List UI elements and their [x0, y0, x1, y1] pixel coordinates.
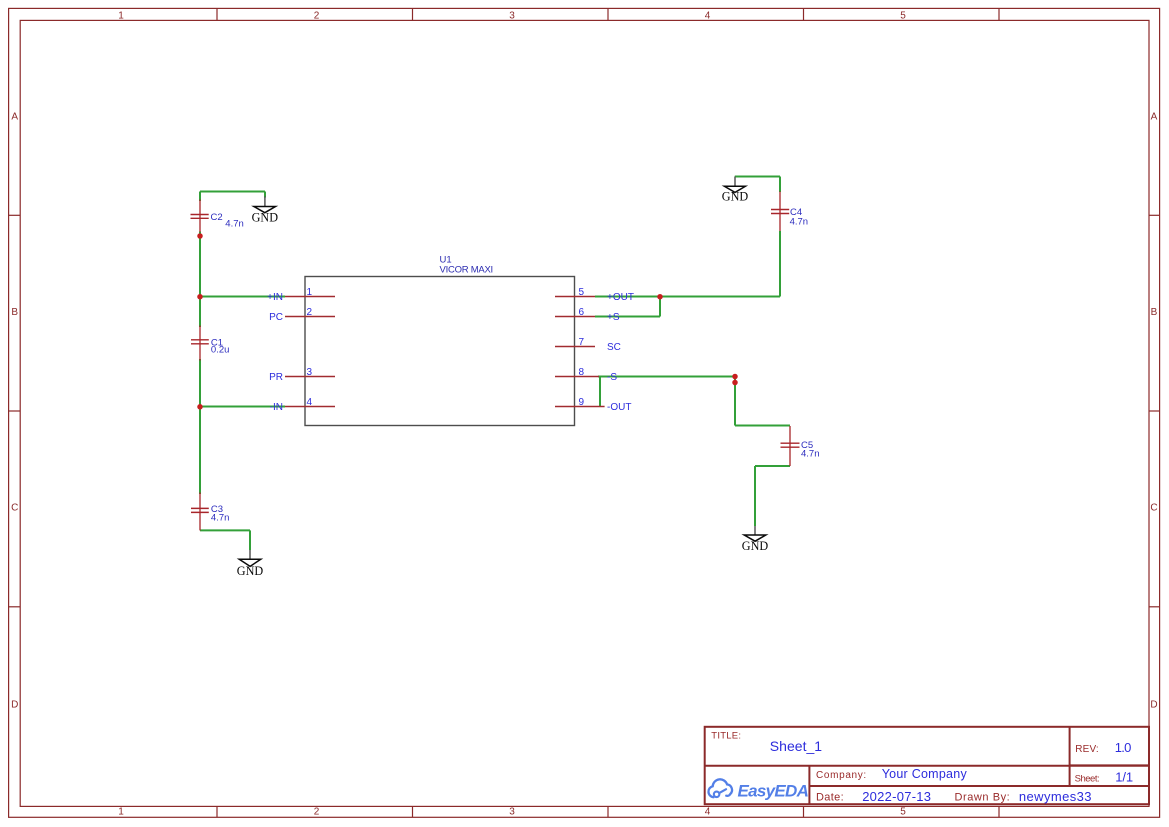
- svg-text:D: D: [1150, 700, 1157, 711]
- svg-text:GND: GND: [237, 564, 264, 578]
- ground GND bottom-right: [742, 526, 769, 553]
- svg-text:A: A: [11, 112, 18, 123]
- svg-text:D: D: [11, 700, 18, 711]
- svg-text:2: 2: [314, 806, 320, 817]
- svg-text:GND: GND: [252, 211, 279, 225]
- svg-text:4.7n: 4.7n: [225, 218, 244, 229]
- svg-text:4.7n: 4.7n: [801, 448, 820, 459]
- pin 4 -IN: [270, 397, 335, 413]
- svg-text:-OUT: -OUT: [607, 402, 631, 413]
- junction below C2 on +IN net: [197, 233, 203, 239]
- svg-text:1: 1: [118, 11, 124, 22]
- svg-text:B: B: [1151, 307, 1158, 318]
- svg-text:5: 5: [900, 806, 906, 817]
- junction at -IN pin wire: [197, 404, 203, 410]
- ground GND bottom-left: [237, 550, 264, 578]
- svg-text:5: 5: [579, 287, 585, 298]
- svg-text:4: 4: [307, 397, 313, 408]
- pin 3 PR: [269, 367, 335, 383]
- svg-text:Date:: Date:: [816, 792, 844, 804]
- junction -S net corner lower: [732, 380, 738, 386]
- junction -S net corner upper: [732, 374, 738, 380]
- svg-text:SC: SC: [607, 342, 621, 353]
- pin 8 -S: [555, 367, 617, 383]
- pin 9 -OUT: [555, 397, 631, 413]
- svg-text:4: 4: [705, 806, 711, 817]
- svg-text:0.2u: 0.2u: [211, 345, 230, 356]
- svg-text:6: 6: [579, 307, 585, 318]
- svg-text:C: C: [11, 503, 18, 514]
- title block: [705, 727, 1149, 804]
- junction at +IN pin wire: [197, 294, 203, 300]
- svg-text:TITLE:: TITLE:: [711, 730, 741, 741]
- svg-text:Your Company: Your Company: [882, 767, 968, 781]
- title block texts: [711, 730, 1133, 804]
- capacitor C2 4.7n: [191, 200, 244, 233]
- svg-text:8: 8: [579, 367, 585, 378]
- svg-text:+S: +S: [607, 312, 620, 323]
- svg-text:Sheet_1: Sheet_1: [770, 738, 823, 754]
- svg-text:GND: GND: [742, 539, 769, 553]
- svg-text:GND: GND: [722, 189, 749, 203]
- svg-text:PR: PR: [269, 372, 283, 383]
- svg-text:4: 4: [705, 11, 711, 22]
- svg-text:4.7n: 4.7n: [790, 216, 809, 227]
- pin 5 +OUT: [555, 287, 634, 303]
- IC U1 VICOR MAXI body: [305, 255, 575, 426]
- svg-text:PC: PC: [269, 312, 283, 323]
- pin 2 PC: [269, 307, 335, 323]
- junction +S to +OUT net: [657, 294, 663, 300]
- ground GND top-right: [722, 177, 749, 204]
- capacitor C5 4.7n: [781, 426, 820, 466]
- svg-text:9: 9: [579, 397, 585, 408]
- svg-text:1: 1: [307, 287, 313, 298]
- svg-text:A: A: [1151, 112, 1158, 123]
- EasyEDA logo: [708, 779, 808, 800]
- svg-text:Drawn By:: Drawn By:: [955, 791, 1010, 803]
- svg-text:1/1: 1/1: [1115, 770, 1133, 785]
- svg-text:REV:: REV:: [1075, 744, 1099, 755]
- svg-text:2: 2: [314, 11, 320, 22]
- svg-text:C2: C2: [211, 212, 223, 223]
- capacitor C3 4.7n: [191, 493, 229, 531]
- ground GND top-left: [252, 196, 279, 224]
- svg-text:C: C: [1150, 503, 1157, 514]
- svg-text:-S: -S: [607, 372, 617, 383]
- pin 7 SC: [555, 337, 621, 353]
- svg-text:2022-07-13: 2022-07-13: [862, 789, 931, 804]
- svg-text:+OUT: +OUT: [607, 292, 634, 303]
- svg-text:3: 3: [509, 11, 515, 22]
- svg-text:EasyEDA: EasyEDA: [738, 781, 809, 800]
- svg-text:1.0: 1.0: [1115, 740, 1132, 755]
- wire -IN net vertical left bus: [200, 192, 285, 551]
- wire -S net: [598, 377, 790, 527]
- svg-text:B: B: [11, 307, 18, 318]
- svg-text:3: 3: [509, 806, 515, 817]
- svg-text:Sheet:: Sheet:: [1075, 774, 1100, 785]
- svg-text:3: 3: [307, 367, 313, 378]
- svg-text:7: 7: [579, 337, 585, 348]
- svg-text:Company:: Company:: [816, 770, 866, 781]
- capacitor C1 0.2u: [191, 326, 229, 361]
- wire +OUT net: [595, 177, 780, 317]
- svg-text:4.7n: 4.7n: [211, 513, 230, 524]
- svg-text:-IN: -IN: [270, 402, 283, 413]
- svg-text:5: 5: [900, 11, 906, 22]
- pin 6 +S: [555, 307, 620, 323]
- svg-text:2: 2: [307, 307, 313, 318]
- capacitor C4 4.7n: [771, 192, 808, 232]
- pin 1 +IN: [267, 287, 335, 303]
- svg-text:1: 1: [118, 806, 124, 817]
- svg-text:VICOR MAXI: VICOR MAXI: [440, 264, 494, 275]
- svg-text:newymes33: newymes33: [1019, 789, 1092, 804]
- svg-text:+IN: +IN: [267, 292, 283, 303]
